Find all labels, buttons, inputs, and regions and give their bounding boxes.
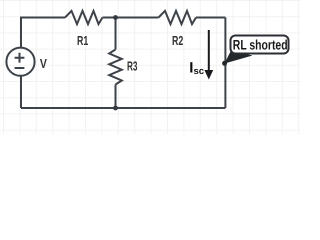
wire: right branch (shorted RL): [224, 18, 226, 109]
callout pointer (tail + dot on wire): [222, 51, 252, 66]
wire: R2 to top-right corner: [196, 17, 225, 19]
wire: R1 to node A: [103, 17, 116, 19]
svg-text:R3: R3: [127, 58, 138, 73]
wire: R3 to node B: [115, 85, 117, 109]
voltage source V (circle with + / -): [6, 48, 34, 76]
wire: bottom-left (source bottom): [20, 76, 22, 108]
wire: top-left (source top to R1): [21, 18, 65, 48]
svg-text:RL shorted: RL shorted: [233, 37, 288, 52]
callout bubble "RL shorted": [231, 36, 289, 54]
svg-text:R2: R2: [172, 33, 183, 48]
node B (bottom junction dot): [113, 106, 118, 111]
current arrow Isc: [204, 30, 213, 80]
wire: node A to R3: [115, 18, 117, 50]
node A (top junction dot): [113, 15, 118, 20]
resistor R2: [159, 11, 197, 24]
wire: node A to R2: [116, 17, 159, 19]
svg-text:R1: R1: [77, 33, 88, 48]
resistor R1: [65, 11, 103, 24]
svg-text:V: V: [40, 56, 47, 71]
wire: bottom return: [21, 107, 225, 109]
resistor R3: [109, 50, 122, 85]
